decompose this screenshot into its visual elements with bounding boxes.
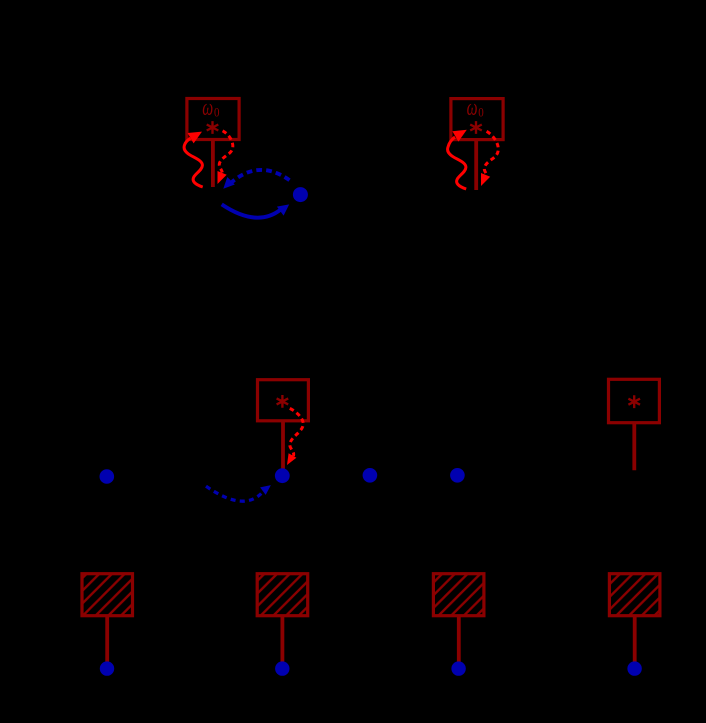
- cavity box C4 (middle-right): [609, 379, 660, 422]
- bath wire B4: [633, 616, 637, 662]
- hopping arrowhead middle (dashed blue): [260, 485, 271, 495]
- svg-text:0: 0: [478, 106, 484, 120]
- pump arrowhead (cavity C1): [188, 132, 202, 144]
- bath site dot B3: [451, 661, 465, 675]
- hopping arrowhead top (dashed blue): [223, 177, 235, 189]
- asterisk (cavity C2): [470, 121, 482, 134]
- coupling wire (cavity C1 to site 1): [211, 141, 215, 188]
- site dot M1 (middle chain): [100, 469, 115, 484]
- label ω0 (cavity C1): [202, 96, 219, 121]
- asterisk (cavity C1): [207, 121, 219, 134]
- bath site dot B2: [275, 661, 289, 675]
- label ω0 (cavity C2): [467, 96, 484, 121]
- hopping arrow bottom (solid blue arc): [222, 204, 281, 217]
- bath box B1 (hatched): [82, 574, 133, 616]
- bath site dot B1: [100, 661, 114, 675]
- bath box B3 (hatched): [433, 574, 484, 616]
- decay arrowhead (cavity C2): [481, 173, 490, 186]
- cavity box C3 (middle): [258, 380, 309, 421]
- site dot M4 (middle chain): [450, 468, 465, 483]
- decay arrowhead (cavity C3): [287, 453, 296, 465]
- decay wavy arrow (cavity C2, dashed red): [484, 131, 498, 175]
- hopping arrow top (dashed blue arc): [228, 170, 290, 186]
- svg-text:0: 0: [214, 106, 220, 120]
- bath box B2 (hatched): [257, 574, 308, 616]
- svg-text:ω: ω: [202, 96, 213, 121]
- bath wire B3: [457, 616, 461, 662]
- pump arrowhead (cavity C2): [452, 130, 466, 142]
- bath site dot B4: [627, 661, 641, 675]
- bath box B4 (hatched): [609, 574, 660, 616]
- cavity box C2 (top-right): [451, 99, 503, 140]
- coupling wire (cavity C4): [632, 423, 636, 471]
- site dot M3 (middle chain): [363, 468, 378, 483]
- pump wavy arrow (cavity C1, solid red): [184, 138, 203, 187]
- decay wavy arrow (cavity C3, dashed red): [290, 408, 303, 456]
- hopping arrow middle (dashed blue arc): [206, 486, 264, 501]
- site dot M2 (middle chain, under cavity C3): [275, 468, 290, 483]
- bath wire B1: [105, 616, 109, 662]
- hopping arrowhead bottom (solid blue): [277, 204, 289, 215]
- coupling wire (cavity C3 to site): [281, 421, 285, 469]
- asterisk (cavity C3): [277, 395, 289, 408]
- site dot S2 (top chain, blue): [293, 187, 308, 202]
- asterisk (cavity C4): [628, 395, 640, 408]
- bath wire B2: [280, 616, 284, 662]
- decay wavy arrow (cavity C1, dashed red): [219, 131, 233, 173]
- pump wavy arrow (cavity C2, solid red): [448, 137, 467, 189]
- decay arrowhead (cavity C1): [218, 171, 227, 184]
- svg-text:ω: ω: [467, 96, 478, 121]
- cavity box C1 (top-left): [187, 99, 239, 140]
- coupling wire (cavity C2): [474, 141, 478, 191]
